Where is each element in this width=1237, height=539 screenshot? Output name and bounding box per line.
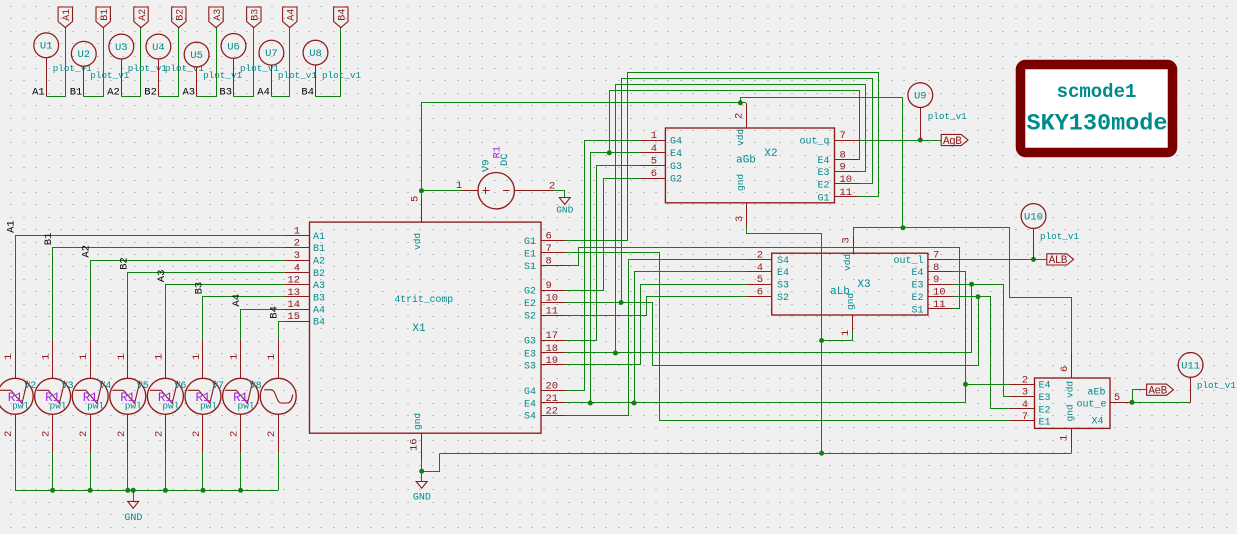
svg-text:A3: A3 [156, 270, 168, 283]
wire net B1 [84, 28, 104, 97]
pin 1 gnd X3 [840, 315, 853, 336]
svg-text:A2: A2 [313, 257, 325, 268]
svg-text:5: 5 [757, 274, 763, 286]
pin 2 vdd X2 [734, 103, 747, 128]
svg-text:8: 8 [933, 262, 939, 274]
svg-text:1: 1 [78, 354, 90, 360]
wire X4 gnd [1071, 448, 1073, 453]
svg-text:A1: A1 [313, 232, 325, 243]
svg-text:1: 1 [229, 354, 241, 360]
wire gnd rail [440, 453, 1072, 455]
wire net S2 [566, 297, 747, 316]
svg-text:pwl: pwl [200, 401, 217, 412]
svg-text:E3: E3 [911, 281, 923, 292]
svg-text:11: 11 [933, 299, 946, 311]
svg-text:5: 5 [410, 196, 422, 202]
svg-text:V6: V6 [174, 381, 186, 392]
junction E4 loop [607, 150, 612, 155]
svg-text:S1: S1 [911, 305, 923, 316]
svg-text:6: 6 [757, 287, 763, 299]
wire source 7 to gnd bus [278, 453, 280, 491]
svg-text:14: 14 [287, 299, 300, 311]
svg-text:gnd: gnd [412, 413, 423, 430]
wire net E3 loop rail [616, 85, 866, 353]
net label A4 [257, 87, 270, 99]
svg-text:S3: S3 [524, 361, 536, 372]
svg-text:X3: X3 [857, 279, 870, 291]
wire net E3 [566, 285, 1010, 397]
wire net A4 to X1 [241, 310, 285, 341]
svg-text:X1: X1 [412, 323, 426, 335]
svg-text:5: 5 [1114, 392, 1120, 404]
wire net S3 [566, 285, 747, 365]
pin 7 E1 X1 [524, 243, 565, 260]
wire vdd stub link [421, 191, 423, 198]
net label B1 [43, 233, 55, 246]
svg-text:U10: U10 [1024, 211, 1043, 223]
svg-text:4: 4 [294, 262, 300, 274]
input flag B3 [247, 7, 262, 28]
svg-text:G3: G3 [524, 336, 536, 347]
svg-text:19: 19 [546, 355, 559, 367]
svg-text:2: 2 [294, 238, 300, 250]
ground GND sources [124, 490, 142, 524]
svg-text:16: 16 [409, 438, 421, 451]
pin 11 G1 X2 [817, 187, 858, 204]
svg-text:pwl: pwl [87, 401, 104, 412]
net label B1 [70, 87, 83, 99]
svg-text:G1: G1 [524, 237, 536, 248]
probe U1 [34, 33, 59, 97]
svg-text:ALB: ALB [1049, 255, 1068, 267]
wire source 5 to gnd bus [202, 453, 204, 491]
svg-text:E2: E2 [524, 299, 536, 310]
svg-text:8: 8 [546, 255, 552, 267]
pin 22 S4 X1 [524, 405, 565, 422]
svg-text:S2: S2 [777, 293, 789, 304]
pin 6 G1 X1 [524, 231, 565, 248]
pin 5 out_e X4 [1110, 392, 1132, 404]
wire X1 gnd stub [421, 460, 423, 482]
svg-text:A1: A1 [62, 9, 73, 21]
wire net E2 X3 stub [953, 296, 978, 298]
pin 3 E3 X4 [1010, 387, 1051, 404]
svg-text:E1: E1 [1039, 417, 1051, 428]
svg-text:plot_v1: plot_v1 [928, 111, 967, 122]
svg-text:E2: E2 [817, 180, 829, 191]
svg-text:GND: GND [124, 513, 142, 524]
wire source 6 to gnd bus [240, 453, 242, 491]
pin 20 G4 X1 [524, 381, 565, 398]
svg-text:plot_v1: plot_v1 [1197, 380, 1236, 391]
junction out_l [1031, 257, 1036, 262]
svg-text:V8: V8 [250, 381, 262, 392]
pin 19 S3 X1 [524, 355, 565, 372]
pin 4 E4 X2 [640, 143, 682, 160]
svg-text:E4: E4 [817, 156, 829, 167]
svg-text:B4: B4 [301, 87, 314, 99]
svg-text:13: 13 [287, 287, 300, 299]
svg-text:G3: G3 [670, 162, 682, 173]
wire net E2 loop rail [622, 79, 873, 303]
svg-text:4trit_comp: 4trit_comp [394, 294, 453, 305]
ic X3 aLb [772, 253, 928, 315]
svg-text:plot_v1: plot_v1 [1040, 231, 1079, 242]
input flag B4 [334, 7, 349, 28]
svg-text:3: 3 [294, 250, 300, 262]
wire V9 to vdd node [422, 190, 462, 192]
junction vdd branch [900, 225, 905, 230]
pin 9 E3 X2 [817, 162, 858, 179]
svg-text:S4: S4 [524, 412, 536, 423]
label plot_v1 U11 [1197, 380, 1236, 391]
svg-text:A4: A4 [231, 294, 243, 307]
svg-text:9: 9 [840, 162, 846, 174]
wire gnd bus [15, 490, 278, 492]
svg-text:U4: U4 [152, 42, 165, 54]
wire probe U11 stem [1190, 378, 1192, 403]
wire X4 vdd [1071, 297, 1073, 352]
wire net A1 [47, 28, 66, 97]
svg-text:A1: A1 [6, 220, 18, 233]
junction E4 b [632, 401, 637, 406]
svg-text:1: 1 [840, 330, 852, 336]
svg-text:G2: G2 [524, 287, 536, 298]
label plot_v1 U9 [928, 111, 967, 122]
svg-text:plot_v1: plot_v1 [128, 63, 167, 74]
wire gnd jog X1 [422, 454, 440, 472]
svg-text:SKY130mode: SKY130mode [1026, 111, 1167, 138]
label plot_v1 U3 [128, 63, 167, 74]
svg-text:E2: E2 [1039, 405, 1051, 416]
pin 7 E1 X4 [1010, 411, 1051, 428]
svg-text:1: 1 [1059, 435, 1071, 441]
junction E3 X3 [969, 282, 974, 287]
junction [125, 488, 130, 493]
svg-text:GND: GND [556, 205, 573, 216]
pin 3 vdd X3 [841, 236, 854, 253]
net label B2 [144, 87, 157, 99]
svg-text:U8: U8 [309, 48, 322, 60]
svg-text:18: 18 [546, 343, 559, 355]
svg-text:U3: U3 [115, 42, 128, 54]
wire net S1 [566, 248, 960, 309]
pin 4 B2 X1 [284, 262, 325, 279]
voltage source V3 pwl [35, 340, 74, 452]
svg-text:plot_v1: plot_v1 [90, 70, 129, 81]
svg-text:V4: V4 [99, 381, 111, 392]
wire source 0 to gnd bus [15, 453, 17, 491]
label plot_v1 U4 [165, 63, 204, 74]
svg-text:pwl: pwl [238, 401, 255, 412]
svg-text:2: 2 [266, 431, 278, 437]
voltage source V4 pwl [72, 340, 111, 452]
svg-text:2: 2 [3, 431, 15, 437]
svg-text:out_e: out_e [1076, 400, 1106, 411]
svg-text:2: 2 [1022, 374, 1028, 386]
svg-text:8: 8 [840, 150, 846, 162]
net label B3 [194, 282, 206, 295]
svg-text:1: 1 [651, 130, 657, 142]
svg-text:X2: X2 [764, 148, 777, 160]
svg-text:gnd: gnd [845, 293, 856, 310]
ic X2 aGb [665, 128, 834, 203]
pin 17 G3 X1 [524, 330, 565, 347]
svg-text:10: 10 [840, 174, 853, 186]
svg-text:pwl: pwl [50, 401, 67, 412]
wire net G1 [566, 73, 879, 241]
voltage source V2 pwl [0, 340, 36, 452]
voltage source V8 pwl [223, 340, 262, 452]
junction gnd X3 [819, 338, 824, 343]
pin 2 S4 X3 [747, 249, 789, 266]
svg-text:out_l: out_l [893, 255, 923, 267]
svg-text:S2: S2 [524, 312, 536, 323]
svg-text:A4: A4 [257, 87, 270, 99]
svg-text:2: 2 [153, 431, 165, 437]
junction E3 loop [613, 351, 618, 356]
wire net E4 to X4 [966, 384, 1010, 386]
wire out_e to U11 [1132, 402, 1191, 404]
output flag AgB [941, 134, 968, 147]
net label A2 [107, 87, 120, 99]
svg-text:AgB: AgB [943, 136, 962, 148]
svg-text:4: 4 [757, 262, 763, 274]
svg-text:20: 20 [546, 381, 559, 393]
probe U7 [259, 40, 284, 96]
svg-text:12: 12 [287, 275, 300, 287]
wire net A3 [197, 28, 217, 97]
probe U8 [303, 40, 328, 97]
output flag ALB [1047, 254, 1074, 267]
svg-text:E3: E3 [817, 168, 829, 179]
wire net E1 [566, 253, 1010, 421]
pin 11 S1 X3 [911, 299, 953, 316]
svg-text:6: 6 [651, 168, 657, 180]
wire vdd rail right [741, 98, 903, 228]
net label B4 [269, 306, 281, 319]
svg-text:pwl: pwl [162, 401, 179, 412]
pin 6 G2 X2 [640, 168, 682, 185]
probe U3 [109, 34, 134, 97]
pin 9 E3 X3 [911, 274, 953, 291]
svg-text:E1: E1 [524, 249, 536, 260]
svg-text:gnd: gnd [1065, 404, 1076, 421]
svg-text:E3: E3 [524, 349, 536, 360]
junction [201, 488, 206, 493]
svg-text:A3: A3 [313, 281, 325, 292]
svg-text:GND: GND [413, 493, 431, 504]
wire source 2 to gnd bus [90, 453, 92, 491]
input flag B1 [96, 7, 111, 28]
svg-text:E4: E4 [777, 268, 789, 279]
wire net E2 [566, 297, 1010, 409]
svg-text:B2: B2 [313, 269, 325, 280]
svg-text:B2: B2 [118, 257, 130, 270]
pin 7 out_q X2 [799, 130, 858, 147]
wire net B4 [316, 28, 341, 97]
input flag B2 [172, 7, 187, 28]
junction [88, 488, 93, 493]
wire net A1 to X1 [16, 236, 285, 341]
svg-text:U7: U7 [265, 48, 278, 60]
svg-text:B3: B3 [194, 282, 206, 295]
wire net E3 X3 stub [953, 284, 972, 286]
svg-text:A1: A1 [32, 87, 45, 99]
svg-text:scmode1: scmode1 [1057, 81, 1137, 103]
wire vdd to X4 [903, 228, 1072, 379]
title box scmode1 SKY130mode [1021, 65, 1173, 153]
svg-text:U9: U9 [914, 91, 927, 103]
wire net B2 to X1 [128, 273, 285, 341]
net label A2 [81, 245, 93, 258]
svg-text:A2: A2 [138, 9, 149, 21]
svg-text:1: 1 [191, 354, 203, 360]
svg-text:B2: B2 [176, 9, 187, 21]
pin 11 S2 X1 [524, 305, 565, 322]
svg-text:plot_v1: plot_v1 [53, 63, 92, 74]
ground GND X1 [413, 482, 431, 504]
svg-text:B4: B4 [269, 306, 281, 319]
svg-text:V2: V2 [24, 381, 36, 392]
svg-text:1: 1 [3, 354, 15, 360]
svg-text:U2: U2 [77, 49, 90, 61]
junction E2 X3 [976, 294, 981, 299]
input flag A3 [209, 7, 224, 28]
svg-text:U1: U1 [40, 41, 53, 53]
svg-text:A3: A3 [182, 87, 195, 99]
junction E4 a [588, 401, 593, 406]
probe U5 [184, 42, 209, 97]
svg-text:B3: B3 [313, 293, 325, 304]
svg-text:9: 9 [546, 280, 552, 292]
pin 4 E4 X3 [747, 262, 789, 279]
wire probe U9 stem [920, 108, 922, 140]
wire net E4 loop rail [610, 91, 860, 160]
label plot_v1 U5 [203, 70, 242, 81]
wire net B3 to X1 [203, 297, 285, 341]
pin 21 E4 X1 [524, 393, 565, 410]
input flag A2 [134, 7, 149, 28]
svg-text:B3: B3 [219, 87, 232, 99]
wire net A2 [122, 28, 141, 97]
net label A1 [32, 87, 45, 99]
svg-text:G2: G2 [670, 175, 682, 186]
junction out_e [1130, 400, 1135, 405]
svg-text:G4: G4 [524, 387, 536, 398]
svg-text:out_q: out_q [799, 136, 829, 147]
ic X1 4trit_comp [310, 222, 542, 433]
svg-text:11: 11 [840, 187, 853, 199]
junction E4 c [963, 382, 968, 387]
pin 2 E4 X4 [1010, 374, 1051, 391]
pin 12 A3 X1 [284, 275, 325, 292]
label plot_v1 U10 [1040, 231, 1079, 242]
svg-text:AeB: AeB [1148, 386, 1167, 398]
wire net E4 to X3 right [953, 272, 966, 403]
svg-text:U11: U11 [1181, 360, 1200, 372]
voltage source V9 DC [456, 146, 555, 209]
voltage source V5 pwl [110, 340, 149, 452]
svg-text:A3: A3 [213, 9, 224, 21]
pin 18 E3 X1 [524, 343, 565, 360]
pin 1 gnd X4 [1059, 428, 1072, 448]
pin 13 B3 X1 [284, 287, 325, 304]
probe U6 [221, 34, 246, 97]
probe U2 [71, 41, 96, 96]
svg-text:S1: S1 [524, 262, 536, 273]
pin 8 S1 X1 [524, 255, 565, 272]
svg-text:5: 5 [651, 156, 657, 168]
svg-text:B1: B1 [313, 244, 325, 255]
svg-text:gnd: gnd [735, 174, 746, 191]
pin 6 vdd X4 [1059, 352, 1072, 378]
net label A4 [231, 294, 243, 307]
pin 10 E2 X2 [817, 174, 858, 191]
pin 7 out_l X3 [893, 249, 953, 266]
pin 16 gnd X1 [409, 433, 422, 460]
svg-text:aEb: aEb [1087, 387, 1105, 399]
svg-text:7: 7 [840, 130, 846, 142]
svg-text:10: 10 [933, 287, 946, 299]
svg-text:A2: A2 [107, 87, 120, 99]
wire net B4 to X1 [279, 322, 285, 341]
wire source 3 to gnd bus [127, 453, 129, 491]
svg-text:B2: B2 [144, 87, 157, 99]
svg-text:A2: A2 [81, 245, 93, 258]
wire net B3 [234, 28, 254, 97]
net label B4 [301, 87, 314, 99]
svg-text:21: 21 [546, 393, 559, 405]
wire out_l [953, 259, 1047, 261]
svg-text:6: 6 [546, 231, 552, 243]
svg-text:6: 6 [1059, 366, 1071, 372]
svg-text:plot_v1: plot_v1 [203, 70, 242, 81]
svg-text:4: 4 [651, 143, 657, 155]
wire source 1 to gnd bus [52, 453, 54, 491]
pin 8 E4 X2 [817, 150, 858, 167]
probe U10 [1021, 204, 1046, 229]
label plot_v1 U8 [322, 70, 361, 81]
svg-text:3: 3 [841, 237, 853, 243]
label plot_v1 U6 [240, 63, 279, 74]
svg-text:vdd: vdd [1065, 381, 1076, 398]
svg-text:pwl: pwl [125, 401, 142, 412]
pin 10 E2 X3 [911, 287, 953, 304]
wire net A3 to X1 [166, 285, 285, 341]
svg-text:X4: X4 [1091, 417, 1103, 428]
svg-text:3: 3 [1022, 387, 1028, 399]
svg-text:E2: E2 [911, 293, 923, 304]
svg-text:B3: B3 [251, 9, 262, 21]
net label A1 [6, 220, 18, 233]
voltage source V7 pwl [185, 340, 224, 452]
svg-text:7: 7 [933, 249, 939, 261]
wire net G3 [566, 166, 641, 341]
voltage source V6 pwl [147, 340, 186, 452]
pin 5 vdd X1 [410, 196, 422, 222]
svg-text:V9: V9 [481, 159, 493, 172]
input flag A1 [58, 7, 73, 28]
svg-text:vdd: vdd [735, 129, 746, 146]
ic X4 aEb [1035, 378, 1111, 428]
svg-text:V7: V7 [212, 381, 224, 392]
output flag AeB [1147, 384, 1174, 397]
svg-text:plot_v1: plot_v1 [165, 63, 204, 74]
input flag A4 [283, 7, 298, 28]
pin 2 B1 X1 [284, 238, 325, 255]
probe U11 [1178, 353, 1203, 378]
